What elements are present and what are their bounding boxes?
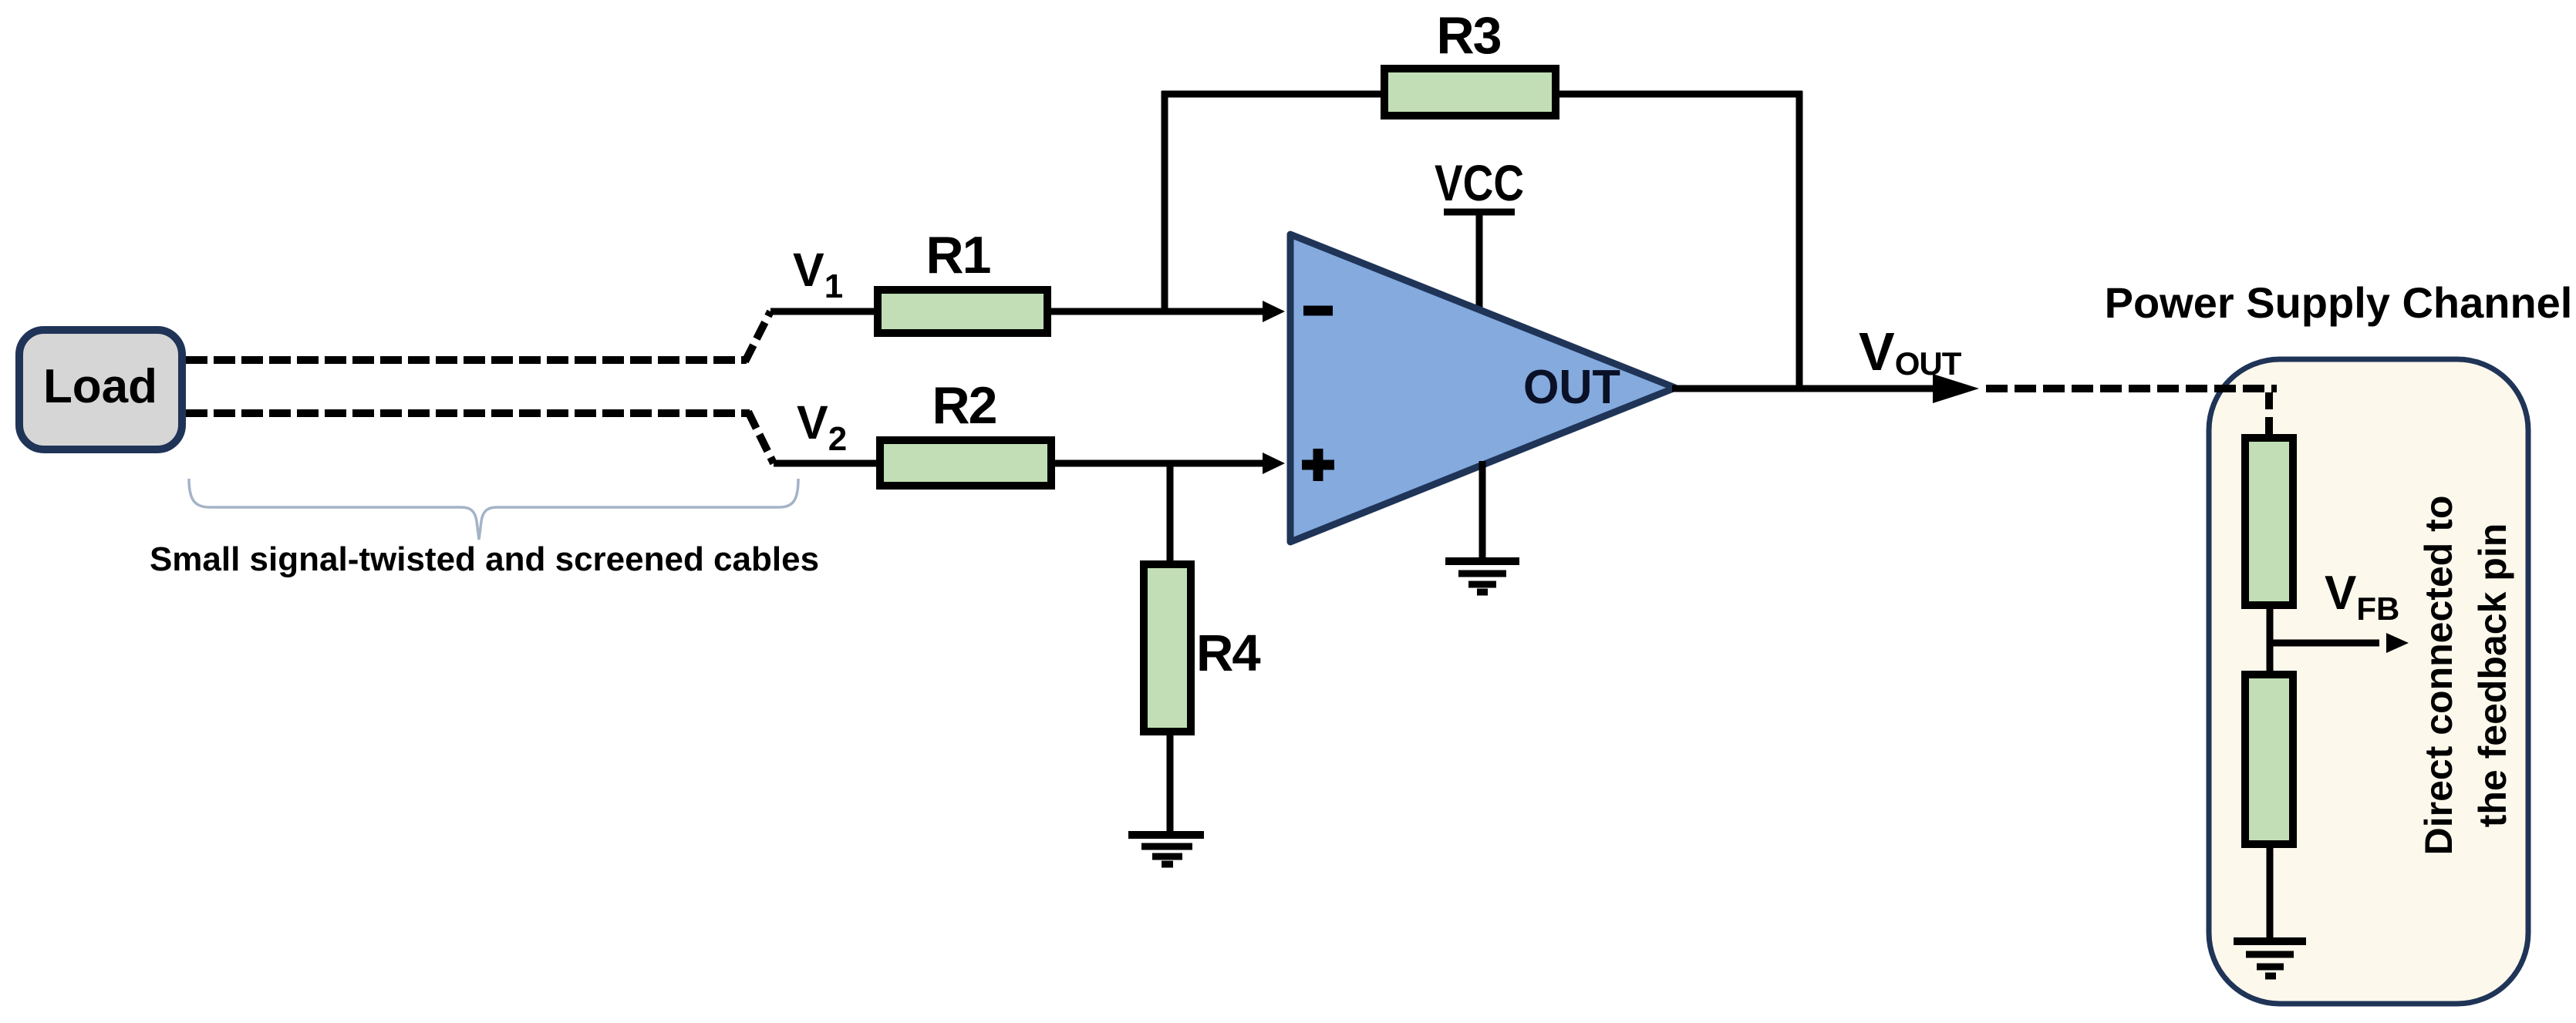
- svg-text:Power Supply Channel: Power Supply Channel: [2105, 278, 2573, 327]
- svg-text:Load: Load: [43, 360, 157, 413]
- svg-text:Direct connected to: Direct connected to: [2417, 496, 2460, 856]
- svg-text:VCC: VCC: [1435, 154, 1524, 211]
- svg-text:OUT: OUT: [1523, 361, 1620, 414]
- svg-text:R4: R4: [1196, 624, 1260, 682]
- svg-text:R2: R2: [932, 376, 996, 435]
- svg-text:R3: R3: [1437, 6, 1501, 65]
- svg-text:Small signal-twisted and scree: Small signal-twisted and screened cables: [150, 540, 819, 578]
- svg-text:the feedback pin: the feedback pin: [2471, 523, 2514, 828]
- svg-text:R1: R1: [926, 226, 990, 284]
